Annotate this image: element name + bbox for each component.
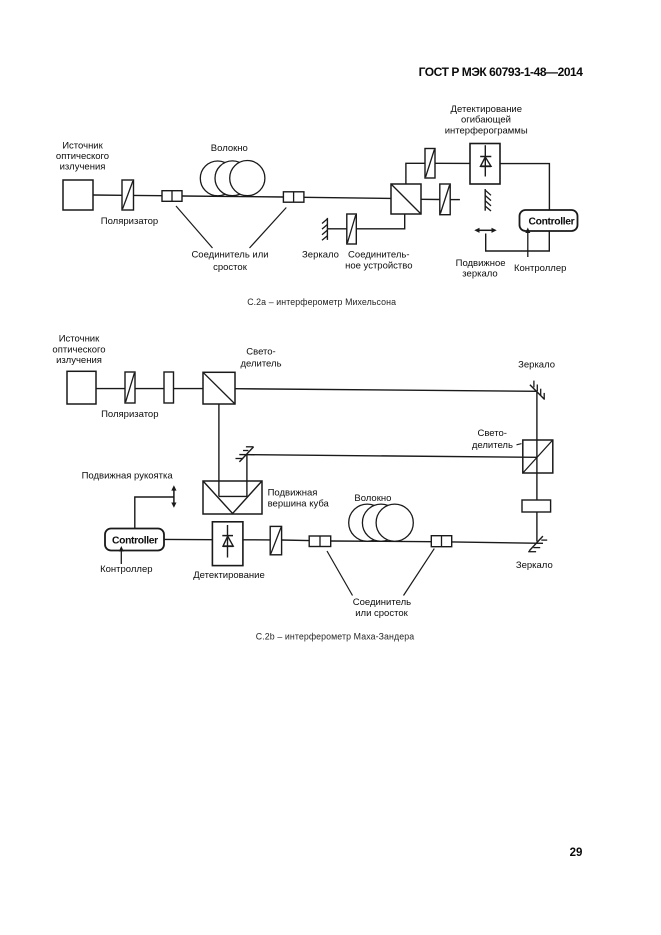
wire source to polarizer <box>93 194 122 196</box>
stub wire right of P3 <box>450 199 460 201</box>
svg-text:Подвижная: Подвижная <box>268 487 318 498</box>
svg-text:Зеркало: Зеркало <box>518 360 555 371</box>
source box <box>63 180 93 210</box>
vertical beam top mirror through BS2b <box>536 391 538 473</box>
svg-text:сросток: сросток <box>213 262 248 273</box>
wire controller2 to detector2 <box>164 538 212 540</box>
label Подвижная рукоятка <box>82 471 174 482</box>
fiber coil 2 (Волокно) <box>349 504 414 541</box>
wire connector2 to beamsplitter <box>304 197 391 198</box>
label Свето-делитель (top) <box>240 347 281 370</box>
double arrow handle <box>171 485 176 508</box>
beam splitter BS2a <box>203 372 235 404</box>
svg-text:делитель: делитель <box>240 358 281 369</box>
label Контроллер 1 <box>514 263 566 274</box>
svg-text:Подвижная рукоятка: Подвижная рукоятка <box>82 471 174 482</box>
photodiode symbol D2 <box>222 525 233 558</box>
plate 2 (plain rect) <box>522 500 551 512</box>
wire handle to controller 2 <box>135 497 174 528</box>
wire P5 to plate <box>135 388 164 390</box>
wire polarizer to connector1 <box>134 194 163 196</box>
leader line from C2 to label <box>250 208 287 249</box>
corner cube (Подвижная вершина куба) <box>203 481 262 514</box>
polarizer P2 <box>425 149 435 179</box>
controller box 2 <box>105 529 164 551</box>
connector D2C2 <box>431 536 451 547</box>
label source 2: Источник оптического излучения <box>52 334 105 366</box>
svg-text:Controller: Controller <box>529 217 575 228</box>
svg-text:делитель: делитель <box>472 440 513 451</box>
wire P2 to detector <box>435 162 470 164</box>
label Подвижное зеркало <box>456 258 506 280</box>
wire under coil 2 <box>331 540 432 543</box>
leader arrow Контроллер to controller 1 <box>525 228 530 258</box>
svg-text:Подвижное: Подвижное <box>456 258 506 269</box>
label Соединитель-ное устройство <box>345 250 412 272</box>
vertical beam plate2 to bottom mirror <box>536 512 538 542</box>
wire source2 to polarizer <box>96 388 125 390</box>
label Контроллер 2 <box>100 564 152 575</box>
double arrow movable mirror <box>474 228 496 233</box>
vertical beam BS2b to plate2 <box>536 473 538 500</box>
label source: Источник оптического излучения <box>56 140 109 172</box>
wire connector D2C2 to bottom mirror <box>452 542 543 543</box>
beam inside corner cube <box>219 495 247 497</box>
svg-text:Controller: Controller <box>112 535 158 546</box>
polarizer P3 <box>440 184 450 215</box>
wire D1 to controller <box>500 164 549 210</box>
polarizer P6 <box>270 526 281 554</box>
svg-text:Зеркало: Зеркало <box>516 560 553 571</box>
svg-text:излучения: излучения <box>56 355 102 366</box>
wire controller bottom to moving mirror <box>486 231 550 251</box>
photodiode symbol D1 <box>480 145 491 176</box>
label Поляризатор <box>101 216 158 227</box>
svg-text:Источник: Источник <box>59 334 100 345</box>
svg-text:29: 29 <box>570 847 583 859</box>
svg-text:Контроллер: Контроллер <box>514 263 566 274</box>
svg-text:интерферограммы: интерферограммы <box>445 125 528 136</box>
svg-text:С.2b – интерферометр Маха-Занд: С.2b – интерферометр Маха-Зандера <box>256 631 414 641</box>
header ГОСТ Р МЭК 60793-1-48—2014 <box>419 65 584 79</box>
beam BS2a down into corner cube <box>218 404 220 496</box>
polarizer P1 <box>122 180 134 210</box>
controller box 1 <box>520 210 578 231</box>
svg-text:ГОСТ Р МЭК 60793-1-48—2014: ГОСТ Р МЭК 60793-1-48—2014 <box>419 65 584 79</box>
source box 2 <box>67 371 96 404</box>
beam splitter BS1 <box>391 184 421 214</box>
svg-text:ное устройство: ное устройство <box>345 260 412 271</box>
wire under coil connector1 to connector2 <box>182 196 283 197</box>
page number 29 <box>570 847 583 859</box>
top wire BS2a to top mirror <box>235 389 537 392</box>
fixed mirror below D1 <box>485 189 491 211</box>
svg-text:Волокно: Волокно <box>354 493 391 504</box>
caption C.2a <box>247 297 396 307</box>
svg-text:оптического: оптического <box>52 344 105 355</box>
leader line from C1 to label <box>176 206 213 248</box>
beam splitter BS2b <box>523 440 553 473</box>
detector box D2 <box>212 522 243 566</box>
wire mirror A to P4 <box>328 228 347 230</box>
mirror bottom right <box>528 536 547 552</box>
leader line from D2C2 to label <box>404 549 435 596</box>
leader arrow Контроллер to controller 2 <box>119 546 124 564</box>
svg-text:огибающей: огибающей <box>461 115 511 126</box>
svg-text:или сросток: или сросток <box>355 608 408 619</box>
svg-text:Контроллер: Контроллер <box>100 564 152 575</box>
svg-text:Поляризатор: Поляризатор <box>101 409 158 420</box>
svg-text:оптического: оптического <box>56 151 109 162</box>
label Волокно 2 <box>354 493 391 504</box>
label Свето-делитель (right) <box>472 428 522 451</box>
svg-text:Зеркало: Зеркало <box>302 249 339 260</box>
wire D2 to polarizer P6 <box>243 539 270 541</box>
detector box D1 <box>470 144 500 185</box>
svg-text:Свето-: Свето- <box>477 428 506 439</box>
wire BS1 right to P3 <box>421 198 440 200</box>
fiber coil (Волокно) <box>200 161 265 196</box>
polarizer P4 coupling device <box>347 214 357 244</box>
plate (plain rect) <box>164 372 174 403</box>
mirror A (Зеркало) <box>322 218 327 240</box>
connector D2C1 <box>309 536 331 547</box>
label Подвижная вершина куба <box>268 487 330 509</box>
label Волокно <box>211 143 248 154</box>
svg-text:зеркало: зеркало <box>462 268 497 279</box>
svg-text:Поляризатор: Поляризатор <box>101 216 158 227</box>
svg-text:Соединитель: Соединитель <box>353 597 411 608</box>
mirror top right <box>530 381 545 400</box>
beam up from cube to tilted mirror <box>246 455 248 496</box>
connector C1 <box>162 191 182 202</box>
tilted mirror above cube <box>236 447 254 462</box>
label Детектирование 2 <box>193 570 264 581</box>
polarizer P5 <box>125 372 135 403</box>
svg-text:Волокно: Волокно <box>211 143 248 154</box>
label Зеркало top <box>518 360 555 371</box>
svg-text:излучения: излучения <box>60 161 106 172</box>
svg-text:Детектирование: Детектирование <box>193 570 264 581</box>
label Соединитель или сросток <box>191 250 268 273</box>
svg-text:вершина куба: вершина куба <box>268 499 330 510</box>
svg-text:С.2а – интерферометр Михельсон: С.2а – интерферометр Михельсона <box>247 297 396 307</box>
wire BS1 top to P2 <box>406 163 425 184</box>
wire tilted mirror to BS2b center <box>239 455 537 458</box>
wire P6 to connector D2C1 <box>282 539 310 542</box>
caption C.2b <box>256 631 414 641</box>
wire P4 to BS1 bottom <box>356 214 404 229</box>
svg-text:Свето-: Свето- <box>246 347 275 358</box>
svg-text:Источник: Источник <box>62 140 103 151</box>
svg-text:Соединитель или: Соединитель или <box>191 250 268 261</box>
label Поляризатор 2 <box>101 409 158 420</box>
wire plate to BS2a <box>174 388 204 390</box>
svg-text:Детектирование: Детектирование <box>451 104 522 115</box>
label Зеркало bottom <box>516 560 553 571</box>
leader line from D2C1 to label <box>327 551 353 596</box>
label Соединитель или сросток 2 <box>353 597 411 619</box>
connector C2 <box>283 192 304 202</box>
label Детектирование огибающей интерферограммы <box>445 104 528 137</box>
label Зеркало <box>302 249 339 260</box>
svg-text:Соединитель-: Соединитель- <box>348 250 410 261</box>
